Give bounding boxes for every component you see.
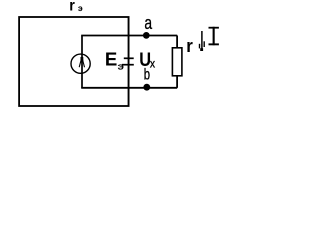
wire: inner box left edge through current source xyxy=(81,36,83,88)
svg-text:r: r xyxy=(186,36,193,56)
EMF long plate xyxy=(122,64,134,66)
resistor r_e outer box xyxy=(19,17,129,106)
svg-text:э: э xyxy=(78,4,82,13)
current source circle xyxy=(71,54,90,73)
wire top: inner box top edge to resistor corner xyxy=(81,35,177,37)
resistor r leads xyxy=(176,36,178,48)
wire bottom: inner box bottom edge to resistor corner xyxy=(81,87,177,89)
current source arrow (up) xyxy=(81,57,84,63)
svg-text:r: r xyxy=(69,0,75,15)
node b xyxy=(143,84,150,91)
svg-text:a: a xyxy=(144,12,152,33)
node a xyxy=(143,32,150,39)
resistor r body xyxy=(172,48,182,76)
EMF short plate xyxy=(124,57,134,59)
EMF source E_e branch (right edge of boxes) xyxy=(128,17,130,106)
svg-text:E: E xyxy=(105,50,117,70)
current I arrow (down) xyxy=(201,31,203,49)
svg-text:x: x xyxy=(150,57,155,71)
svg-text:э: э xyxy=(118,61,125,71)
current label I (serif style) xyxy=(209,27,219,29)
